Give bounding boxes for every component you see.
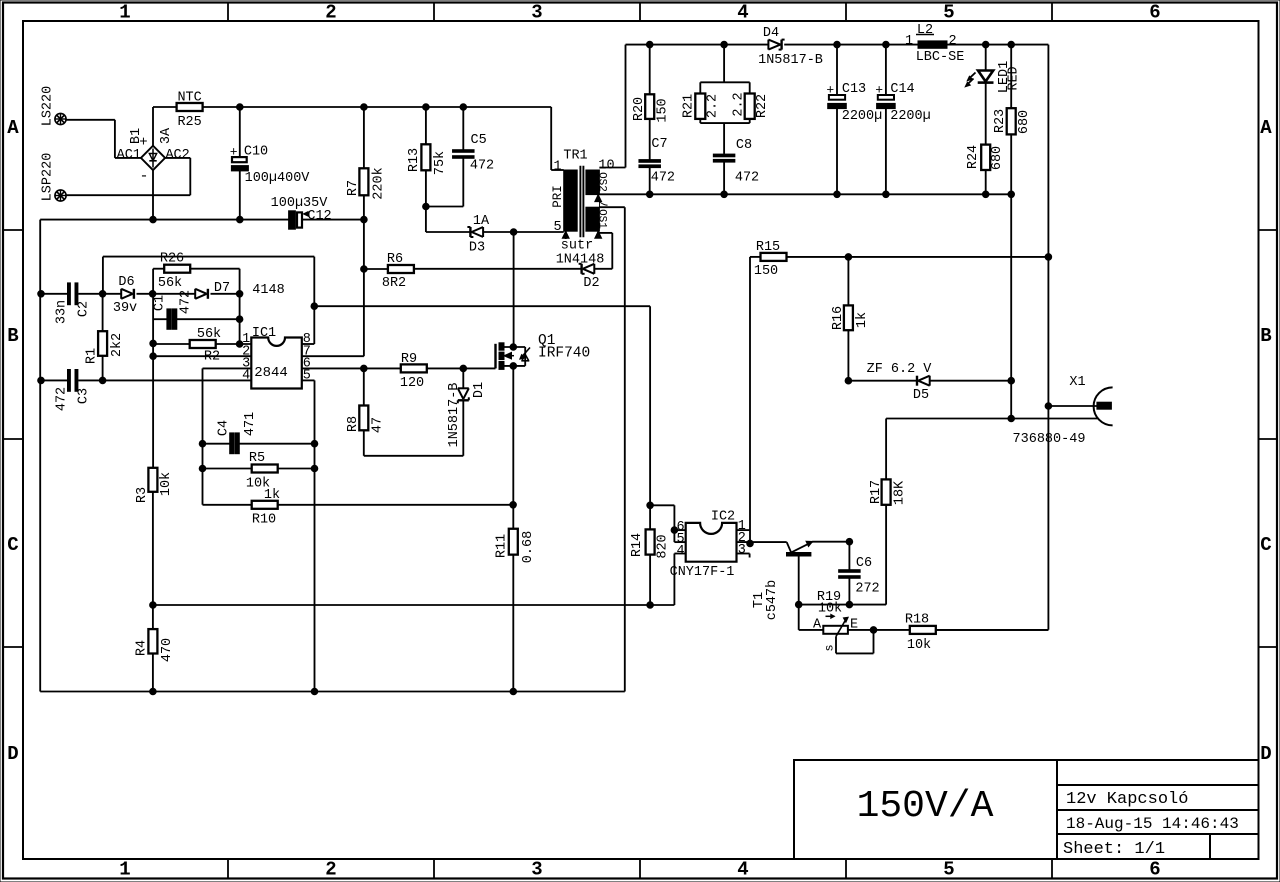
svg-text:736880-49: 736880-49 — [1013, 432, 1086, 447]
svg-text:A: A — [1260, 117, 1272, 139]
svg-text:OS1: OS1 — [596, 209, 608, 229]
svg-text:C10: C10 — [244, 145, 268, 160]
svg-text:4148: 4148 — [252, 283, 284, 298]
svg-text:2844: 2844 — [254, 365, 288, 381]
svg-text:IC1: IC1 — [252, 326, 276, 341]
svg-text:R23: R23 — [993, 109, 1008, 133]
svg-text:C: C — [1260, 534, 1271, 556]
svg-text:3A: 3A — [159, 127, 174, 144]
svg-text:4: 4 — [737, 859, 748, 881]
svg-text:18-Aug-15 14:46:43: 18-Aug-15 14:46:43 — [1066, 815, 1239, 833]
svg-text:R24: R24 — [966, 145, 981, 169]
svg-text:56k: 56k — [158, 276, 182, 291]
svg-text:D2: D2 — [583, 276, 599, 291]
svg-text:R4: R4 — [135, 640, 150, 656]
svg-text:C3: C3 — [77, 388, 92, 404]
svg-text:AC1: AC1 — [117, 148, 141, 163]
svg-text:R8: R8 — [346, 416, 361, 432]
svg-text:D4: D4 — [763, 26, 779, 41]
svg-text:IRF740: IRF740 — [538, 346, 590, 362]
svg-text:472: 472 — [55, 387, 70, 411]
svg-text:sutr: sutr — [561, 239, 593, 254]
svg-text:R22: R22 — [755, 94, 770, 118]
svg-text:1: 1 — [119, 859, 130, 881]
svg-text:2.2: 2.2 — [706, 94, 721, 118]
svg-text:R11: R11 — [495, 534, 510, 558]
svg-text:2k2: 2k2 — [110, 333, 125, 357]
svg-text:150: 150 — [656, 98, 671, 122]
svg-text:R20: R20 — [632, 97, 647, 121]
svg-text:D3: D3 — [469, 241, 485, 256]
svg-text:4: 4 — [242, 369, 250, 384]
svg-text:0.68: 0.68 — [521, 531, 536, 563]
svg-text:+: + — [875, 83, 883, 98]
svg-text:D1: D1 — [472, 382, 487, 398]
svg-text:R1: R1 — [85, 348, 100, 364]
svg-text:OS2: OS2 — [596, 172, 608, 192]
svg-text:1k: 1k — [264, 488, 280, 503]
svg-text:220k: 220k — [372, 167, 387, 199]
svg-text:5: 5 — [943, 859, 954, 881]
svg-text:472: 472 — [735, 171, 759, 186]
svg-text:R7: R7 — [346, 180, 361, 196]
svg-text:R16: R16 — [831, 306, 846, 330]
svg-text:R2: R2 — [204, 350, 220, 365]
svg-text:C: C — [7, 534, 18, 556]
svg-text:39v: 39v — [113, 301, 137, 316]
svg-text:1N5817-B: 1N5817-B — [758, 53, 823, 68]
svg-text:8R2: 8R2 — [382, 276, 406, 291]
svg-text:33n: 33n — [55, 300, 70, 324]
svg-text:LS220: LS220 — [41, 86, 56, 127]
svg-text:L2: L2 — [917, 23, 933, 38]
svg-text:472: 472 — [651, 171, 675, 186]
svg-text:R3: R3 — [135, 487, 150, 503]
svg-text:2: 2 — [325, 2, 336, 24]
svg-text:470: 470 — [160, 638, 175, 662]
svg-text:s: s — [823, 644, 837, 651]
svg-text:18K: 18K — [893, 480, 908, 505]
svg-text:1A: 1A — [473, 214, 490, 229]
svg-text:820: 820 — [656, 534, 671, 558]
svg-text:2200µ: 2200µ — [842, 109, 883, 124]
svg-text:C13: C13 — [842, 82, 866, 97]
svg-text:D: D — [1260, 743, 1271, 765]
svg-text:R6: R6 — [387, 252, 403, 267]
svg-text:R5: R5 — [249, 451, 265, 466]
svg-text:R26: R26 — [160, 252, 184, 267]
svg-text:5: 5 — [303, 369, 311, 384]
svg-text:680: 680 — [990, 146, 1005, 170]
svg-text:IC2: IC2 — [711, 510, 735, 525]
svg-text:D5: D5 — [913, 388, 929, 403]
svg-text:1: 1 — [905, 34, 913, 49]
svg-text:R25: R25 — [177, 115, 201, 130]
svg-text:272: 272 — [855, 582, 879, 597]
svg-text:6: 6 — [1149, 859, 1160, 881]
svg-text:-: - — [139, 168, 148, 185]
svg-text:C4: C4 — [217, 420, 232, 436]
svg-text:E: E — [850, 618, 858, 633]
svg-text:X1: X1 — [1069, 375, 1085, 390]
svg-text:R21: R21 — [682, 94, 697, 118]
svg-text:c547b: c547b — [765, 580, 780, 621]
svg-text:1N5817-B: 1N5817-B — [447, 383, 462, 448]
svg-text:C14: C14 — [890, 82, 914, 97]
svg-text:R13: R13 — [407, 148, 422, 172]
svg-text:6: 6 — [1149, 2, 1160, 24]
svg-text:472: 472 — [179, 290, 194, 314]
svg-text:120: 120 — [400, 376, 424, 391]
svg-text:C7: C7 — [651, 137, 667, 152]
svg-text:100µ400V: 100µ400V — [245, 171, 311, 186]
svg-text:10k: 10k — [818, 602, 842, 617]
svg-text:10k: 10k — [907, 638, 931, 653]
svg-text:TR1: TR1 — [563, 149, 587, 164]
svg-text:472: 472 — [470, 159, 494, 174]
svg-text:C2: C2 — [77, 301, 92, 317]
svg-text:R14: R14 — [630, 533, 645, 557]
svg-text:R15: R15 — [756, 240, 780, 255]
svg-text:+: + — [826, 83, 834, 98]
svg-text:A: A — [7, 117, 19, 139]
svg-text:LBC-SE: LBC-SE — [916, 50, 965, 65]
svg-text:10k: 10k — [159, 472, 174, 496]
svg-text:R9: R9 — [401, 352, 417, 367]
svg-text:471: 471 — [243, 412, 258, 436]
svg-text:B: B — [1260, 325, 1271, 347]
svg-text:1k: 1k — [855, 312, 870, 328]
svg-text:5: 5 — [943, 2, 954, 24]
svg-text:1: 1 — [119, 2, 130, 24]
svg-text:75k: 75k — [433, 151, 448, 175]
svg-text:C12: C12 — [307, 209, 331, 224]
svg-text:150V/A: 150V/A — [857, 785, 994, 828]
svg-text:A: A — [813, 618, 822, 633]
svg-text:C5: C5 — [470, 133, 486, 148]
svg-text:C6: C6 — [856, 556, 872, 571]
svg-text:R10: R10 — [252, 513, 276, 528]
svg-text:2: 2 — [948, 34, 956, 49]
svg-text:R18: R18 — [905, 613, 929, 628]
svg-text:4: 4 — [676, 544, 684, 559]
svg-text:AC2: AC2 — [165, 148, 189, 163]
svg-text:ZF 6.2 V: ZF 6.2 V — [867, 362, 933, 377]
svg-text:CNY17F-1: CNY17F-1 — [670, 565, 735, 580]
svg-text:2200µ: 2200µ — [890, 109, 931, 124]
svg-text:+: + — [230, 145, 238, 160]
svg-text:1N4148: 1N4148 — [556, 253, 605, 268]
svg-text:3: 3 — [531, 859, 542, 881]
svg-text:12v Kapcsoló: 12v Kapcsoló — [1066, 790, 1188, 809]
svg-text:680: 680 — [1017, 110, 1032, 134]
svg-text:150: 150 — [754, 264, 778, 279]
svg-text:4: 4 — [737, 2, 748, 24]
svg-text:NTC: NTC — [177, 91, 201, 106]
svg-text:47: 47 — [371, 417, 386, 433]
svg-text:D6: D6 — [118, 275, 134, 290]
svg-text:D: D — [7, 743, 18, 765]
svg-text:D7: D7 — [214, 281, 230, 296]
svg-text:RED: RED — [1007, 66, 1022, 90]
svg-text:PRI: PRI — [551, 185, 565, 208]
svg-text:3: 3 — [738, 543, 746, 558]
svg-text:3: 3 — [531, 2, 542, 24]
svg-text:56k: 56k — [197, 327, 221, 342]
svg-text:C1: C1 — [153, 295, 168, 311]
svg-text:LSP220: LSP220 — [41, 153, 56, 202]
svg-text:2: 2 — [325, 859, 336, 881]
svg-text:5: 5 — [553, 220, 561, 235]
svg-text:2.2: 2.2 — [732, 92, 747, 116]
svg-text:1: 1 — [553, 160, 561, 175]
svg-text:Sheet: 1/1: Sheet: 1/1 — [1063, 840, 1165, 859]
svg-text:R17: R17 — [869, 480, 884, 504]
svg-text:C8: C8 — [736, 138, 752, 153]
svg-text:B: B — [7, 325, 18, 347]
